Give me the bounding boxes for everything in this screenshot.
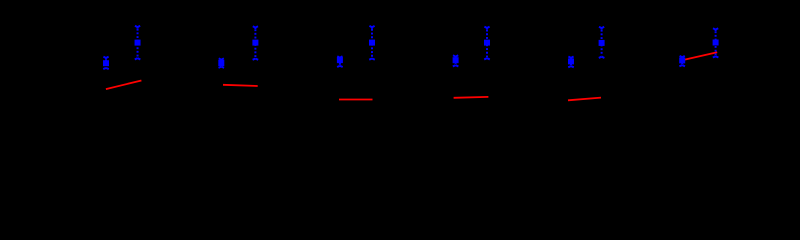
- blue errorbar column 4b (tall): tri-down cap, dotted range line, square mean, tri-up cap: [484, 27, 490, 60]
- red trend line segment, group 6: [682, 52, 717, 60]
- red trend line segment, group 2: [223, 85, 258, 86]
- blue errorbar column 1b (tall): tri-down cap, dotted range line, square mean, tri-up cap: [135, 26, 141, 60]
- blue errorbar column 4a (short): tri-down cap, square mean, tri-up cap: [453, 55, 459, 66]
- blue errorbar column 2a (short): tri-down cap, square mean, tri-up cap: [218, 58, 224, 67]
- blue errorbar column 5b (tall): tri-down cap, dotted range line, square mean, tri-up cap: [599, 27, 605, 58]
- blue errorbar column 2b (tall): tri-down cap, dotted range line, square mean, tri-up cap: [252, 26, 258, 60]
- blue errorbar column 3a (short): tri-down cap, square mean, tri-up cap: [337, 56, 343, 67]
- red trend line segment, group 3: [339, 99, 373, 101]
- blue errorbar column 6a (short): tri-down cap, square mean, tri-up cap: [679, 56, 685, 66]
- blue errorbar column 3b (tall): tri-down cap, dotted range line, square mean, tri-up cap: [369, 26, 375, 60]
- red trend line segment, group 4: [454, 96, 489, 99]
- blue errorbar column 5a (short): tri-down cap, square mean, tri-up cap: [568, 57, 574, 68]
- blue errorbar column 6b (tall): tri-down cap, dotted range line, square mean, tri-up cap: [713, 28, 719, 57]
- red trend line segment, group 1: [106, 81, 141, 90]
- red trend line segment, group 5: [568, 98, 601, 101]
- blue errorbar column 1a (short): tri-down cap, square mean, tri-up cap: [103, 57, 109, 70]
